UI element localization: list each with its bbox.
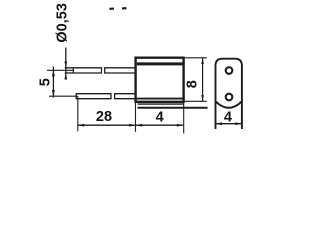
top lead upper edge <box>65 67 102 69</box>
body width dimension 4: shared left extension <box>135 103 137 132</box>
svg-text:Ø0,53: Ø0,53 <box>54 3 70 43</box>
top lead hole <box>226 67 233 74</box>
arrow up to lead bottom edge <box>64 73 67 79</box>
lead length dimension 28: left extension line <box>77 96 79 131</box>
top lead lower edge <box>65 72 102 74</box>
height dimension 8: bottom extension line <box>185 100 207 102</box>
svg-text:4: 4 <box>224 109 232 125</box>
end 4 left arrow <box>216 122 222 125</box>
bottom lead hole <box>226 94 233 101</box>
bottom lead rectangle segment 1 <box>76 93 111 99</box>
svg-text:4: 4 <box>156 109 164 125</box>
lead spacing dimension line 5 <box>52 67 54 98</box>
svg-text:5: 5 <box>38 78 54 86</box>
end view outline <box>216 59 242 129</box>
body base dome line continuing to end view <box>138 107 208 109</box>
top lead left cap <box>72 67 74 73</box>
top lead break right cap <box>101 67 103 73</box>
body top seam line <box>137 62 183 65</box>
body outline <box>136 58 184 102</box>
body bottom seam line <box>137 98 183 100</box>
body width dimension 4: right extension <box>183 103 185 134</box>
28 right arrow <box>129 124 135 127</box>
end 4 right arrow <box>235 122 241 125</box>
top lead segment 2 <box>105 67 136 73</box>
top lead centerline extension <box>47 69 74 71</box>
arrow down <box>201 95 204 101</box>
bottom lead centerline extension <box>49 95 78 97</box>
4 right arrow <box>177 124 183 127</box>
svg-text:8: 8 <box>184 80 200 88</box>
svg-text:28: 28 <box>96 109 112 125</box>
height dimension 8: dimension line <box>202 58 204 102</box>
body base crimp line <box>138 103 184 105</box>
end view width dimension 4: dimension line <box>216 123 242 125</box>
end view bottom arc <box>216 101 242 108</box>
speck dash 2 <box>122 7 127 10</box>
arrow down to lead top edge <box>64 61 67 67</box>
diameter dimension line Ø0,53 <box>65 48 67 80</box>
arrow up <box>201 58 204 64</box>
28 dimension line <box>78 124 136 126</box>
bottom lead segment 2 <box>115 93 136 99</box>
arrow up tip at top lead centerline <box>52 70 55 76</box>
4 left arrow <box>136 124 142 127</box>
body bottom edge <box>134 101 184 103</box>
arrow down tip at bottom lead centerline <box>52 90 55 96</box>
speck dash 1 <box>109 7 114 10</box>
height dimension 8: top extension line <box>185 57 207 59</box>
28 left arrow <box>78 124 84 127</box>
4 dimension line <box>136 124 184 126</box>
